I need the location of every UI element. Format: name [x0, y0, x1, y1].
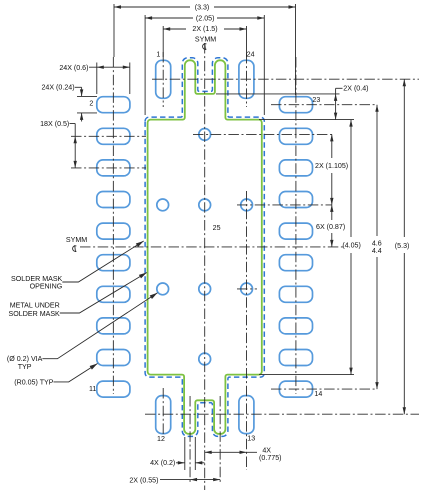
centerline SYMM horizontal	[80, 246, 345, 248]
via row3 right	[241, 283, 253, 295]
centerline pad 3 row	[71, 135, 146, 137]
centerline SYMM vertical	[204, 43, 206, 490]
svg-text:2: 2	[89, 100, 93, 108]
svg-text:OPENING: OPENING	[30, 283, 63, 291]
svg-text:2X (0.4): 2X (0.4)	[343, 85, 368, 93]
via top center	[199, 129, 211, 141]
pad pin 2	[97, 97, 130, 113]
centerline right finger	[219, 396, 221, 484]
centerline top pad row	[152, 78, 419, 80]
pad pin 15	[279, 350, 312, 366]
label 4X (0.775)	[259, 447, 281, 462]
svg-text:(0.775): (0.775)	[259, 454, 281, 462]
dimension 4.6 / 4.4	[375, 105, 378, 389]
svg-text:25: 25	[213, 224, 221, 232]
dimension 2X (1.105) and 6X (0.87)	[330, 134, 333, 247]
svg-text:SYMM: SYMM	[195, 36, 216, 44]
pad pin 3	[97, 128, 130, 144]
via row2 right	[241, 199, 253, 211]
svg-text:23: 23	[312, 96, 320, 104]
svg-text:6X (0.87): 6X (0.87)	[316, 223, 345, 231]
dimension 2X (0.4)	[216, 88, 343, 119]
svg-text:(R0.05) TYP: (R0.05) TYP	[14, 378, 54, 386]
pad pin 19	[279, 223, 312, 239]
centerline pad 1	[162, 52, 164, 107]
dimension 24X (0.6)	[89, 63, 130, 95]
svg-text:12: 12	[157, 435, 165, 443]
centerline via mid row extension	[237, 204, 332, 206]
svg-text:METAL UNDER: METAL UNDER	[10, 302, 60, 310]
centerline left pad column	[112, 57, 114, 394]
thermal pad 25 solder mask opening (dashed)	[145, 58, 264, 437]
leader solder mask opening	[62, 239, 145, 282]
pad pin 8	[97, 286, 130, 302]
centerline via/pad 13 column	[246, 191, 248, 470]
pad pin 18	[279, 255, 312, 271]
pad pin 12	[156, 396, 171, 434]
pad pin 4	[97, 160, 130, 176]
svg-text:4.4: 4.4	[372, 247, 382, 255]
centerline pad 4 row	[71, 167, 146, 169]
label metal under solder mask	[9, 302, 61, 318]
pad pin 7	[97, 255, 130, 271]
svg-text:SYMM: SYMM	[66, 236, 87, 244]
svg-text:14: 14	[314, 390, 322, 398]
pad pin 23	[279, 97, 312, 113]
dimension 2X (1.5)	[163, 26, 246, 57]
dimension 18X (0.5)	[70, 124, 77, 168]
pad pin 5	[97, 192, 130, 208]
thermal pad 25 metal under solder mask (green)	[148, 60, 262, 434]
label via typ	[7, 355, 43, 371]
centerline pad 23 row	[271, 104, 377, 106]
dimension (4.05)	[259, 120, 354, 375]
pad pin 10	[97, 350, 130, 366]
dimension 24X (0.24)	[75, 87, 97, 121]
svg-text:24X (0.6): 24X (0.6)	[59, 64, 88, 72]
pad pin 17	[279, 286, 312, 302]
centerline left finger	[189, 396, 191, 484]
centerline right pad column	[295, 57, 297, 394]
pad pin 22	[279, 128, 312, 144]
svg-text:1: 1	[156, 50, 160, 58]
svg-text:(Ø 0.2) VIA: (Ø 0.2) VIA	[7, 355, 43, 363]
svg-text:(3.3): (3.3)	[195, 3, 210, 11]
svg-text:24X (0.24): 24X (0.24)	[41, 84, 74, 92]
pad pin 24	[239, 60, 254, 98]
pad pin 20	[279, 192, 312, 208]
pad pin 21	[279, 160, 312, 176]
centerline pad 12	[162, 388, 164, 434]
pad pin 9	[97, 318, 130, 334]
svg-text:(4.05): (4.05)	[342, 241, 361, 249]
centerline pad 14 row	[271, 388, 377, 390]
via bottom center	[199, 353, 211, 365]
dimension (2.05)	[145, 15, 264, 115]
via row3 center	[199, 283, 211, 295]
svg-text:13: 13	[247, 435, 255, 443]
dimension 4X (0.775)	[205, 451, 257, 454]
symbol centerline left	[73, 245, 77, 252]
label solder mask opening	[11, 275, 63, 291]
svg-text:SOLDER MASK: SOLDER MASK	[9, 310, 61, 318]
svg-text:11: 11	[89, 385, 96, 393]
pad pin 11	[97, 381, 130, 397]
symbol centerline top	[203, 43, 207, 50]
via row3 left	[157, 283, 169, 295]
pad pin 13	[239, 396, 254, 434]
svg-text:(2.05): (2.05)	[196, 14, 215, 22]
centerline pad 24	[246, 53, 248, 107]
svg-text:24: 24	[247, 50, 255, 58]
svg-text:2X (1.105): 2X (1.105)	[315, 162, 348, 170]
via row2 center	[199, 199, 211, 211]
leader via typ	[42, 291, 158, 359]
dimension 2X (0.55)	[160, 478, 220, 481]
centerline via top row extension	[193, 133, 332, 135]
svg-text:18X (0.5): 18X (0.5)	[40, 120, 69, 128]
centerline bottom pad row	[145, 413, 419, 415]
svg-text:TYP: TYP	[18, 363, 32, 371]
leader r0.05 typ	[54, 362, 99, 382]
dimension (5.3)	[403, 79, 406, 414]
leader metal under solder mask	[60, 271, 148, 313]
dimension 4X (0.2)	[176, 437, 205, 470]
pad pin 6	[97, 223, 130, 239]
svg-text:4X (0.2): 4X (0.2)	[150, 459, 175, 467]
svg-text:2X (0.55): 2X (0.55)	[129, 476, 158, 484]
pad pin 16	[279, 318, 312, 334]
centerline via row3 cross arm	[237, 288, 257, 290]
via row2 left	[157, 199, 169, 211]
dimension (3.3)	[114, 4, 296, 95]
pad pin 14	[279, 381, 312, 397]
svg-text:(5.3): (5.3)	[395, 242, 410, 250]
svg-text:2X (1.5): 2X (1.5)	[192, 25, 217, 33]
pad pin 1	[156, 60, 171, 98]
